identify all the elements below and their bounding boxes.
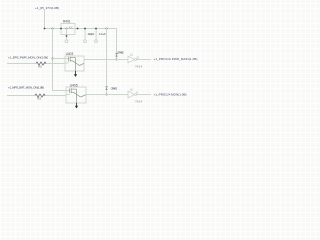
wire long vertical to lower output <box>106 28 107 95</box>
testpoint circle TP2 <box>95 40 98 43</box>
buffer U406A 7414 <box>128 54 142 69</box>
node upper clamp junction <box>116 59 118 61</box>
wire sense stub <box>66 28 68 40</box>
buffer U406B 7414 <box>128 89 142 104</box>
label CR402 <box>117 51 124 55</box>
svg-text:R401: R401 <box>63 19 71 23</box>
svg-text:R3: R3 <box>37 97 41 101</box>
node upper feed junction <box>52 58 54 60</box>
node box input junction <box>60 28 62 30</box>
label 0.1uF <box>99 32 106 36</box>
net +1_PROC/A PWR label <box>154 57 198 61</box>
diode CR403 <box>105 87 107 90</box>
label 100pF <box>87 32 94 36</box>
capacitor stub TP2 <box>85 28 86 40</box>
ground below U405 <box>75 103 78 109</box>
mosfet switch U405 <box>66 84 86 104</box>
svg-text:7414: 7414 <box>135 64 142 68</box>
svg-text:R2: R2 <box>38 65 42 69</box>
mosfet switch U403 <box>65 52 84 71</box>
node box output junction <box>77 28 79 30</box>
svg-text:+1_PROC/A PWR_MAIN(1.0B): +1_PROC/A PWR_MAIN(1.0B) <box>154 57 198 61</box>
wire U403 output <box>84 59 128 60</box>
svg-text:CR402: CR402 <box>117 51 124 55</box>
resistor R401 box <box>61 19 75 34</box>
node bus-left junction <box>44 28 46 30</box>
svg-text:0.1uF: 0.1uF <box>99 32 106 36</box>
wire U405 output <box>86 94 128 95</box>
wire to U405 drain <box>52 90 66 91</box>
svg-text:12: 12 <box>130 54 133 57</box>
net +1_PROC/A MON label <box>154 93 187 97</box>
svg-text:100pF: 100pF <box>87 32 94 36</box>
net +1_MPS_BAT label <box>8 85 44 89</box>
svg-text:+1_MPS_BAT_MON_ON(1.0B): +1_MPS_BAT_MON_ON(1.0B) <box>8 85 44 89</box>
svg-text:+1_PROC/A MON(1.0B): +1_PROC/A MON(1.0B) <box>154 93 187 97</box>
svg-text:U403: U403 <box>66 52 74 56</box>
wire from 27V label down <box>44 10 45 28</box>
diode CR402 <box>115 54 117 57</box>
wire buffer1 output <box>137 59 152 60</box>
testpoint circle TP2a <box>84 40 87 43</box>
svg-text:9: 9 <box>136 91 138 94</box>
ground below U403 <box>74 71 77 77</box>
svg-text:NC: NC <box>69 26 73 30</box>
svg-text:+1_(P)_27V(1.0B): +1_(P)_27V(1.0B) <box>35 6 59 10</box>
net +1_(P)_27V(1.0B) label <box>35 6 59 10</box>
svg-text:10: 10 <box>130 89 133 92</box>
node TP2a junction <box>84 28 86 30</box>
svg-text:7414: 7414 <box>135 100 142 104</box>
svg-text:CR403: CR403 <box>111 87 118 91</box>
wire lower control <box>7 95 66 96</box>
wire to U403 drain <box>52 58 65 59</box>
resistor R402 zigzag <box>36 62 46 69</box>
node C401 junction <box>95 28 97 30</box>
svg-text:11: 11 <box>136 56 139 59</box>
svg-text:U405: U405 <box>70 84 78 88</box>
node box center junction <box>66 28 68 30</box>
node lower clamp junction <box>106 94 108 96</box>
label NC <box>69 26 73 30</box>
node long drop junction <box>106 28 108 30</box>
testpoint circle TP1 <box>65 40 68 43</box>
svg-text:+1_EPS_PWR_MON_ON(1.0B): +1_EPS_PWR_MON_ON(1.0B) <box>8 55 48 59</box>
node bus drop junction <box>52 28 54 30</box>
label CR403 <box>111 87 118 91</box>
net +1_EPS_PWR_MON_ON label <box>8 55 48 59</box>
capacitor stub TP3 <box>96 28 97 40</box>
wire vertical feed to switches <box>52 28 53 91</box>
wire upper control <box>7 63 65 64</box>
wire bus corner drop <box>116 28 117 60</box>
resistor R403 zigzag <box>35 94 45 101</box>
wire 27V bus <box>44 28 117 29</box>
wire buffer2 output <box>137 94 152 95</box>
